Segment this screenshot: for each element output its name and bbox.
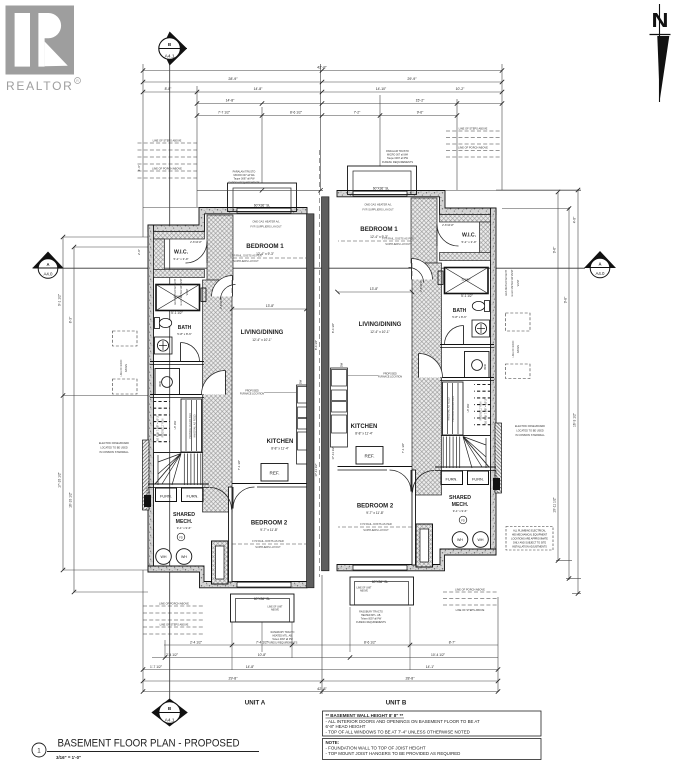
svg-text:VENT: VENT [517,279,520,286]
svg-text:UNIT A: UNIT A [245,700,266,707]
bottom window bay [231,594,295,622]
door: living entry [221,285,236,300]
svg-text:MICRO 007 all WA: MICRO 007 all WA [387,154,408,157]
hatched wall band below W.I.C. [154,270,205,278]
window opening top bay [237,208,291,213]
section marker B/A4.1 bottom [151,699,187,727]
section marker A/A4.0 left [33,252,64,279]
svg-text:7'-2": 7'-2" [354,110,361,114]
svg-text:SHARED: SHARED [173,512,195,518]
svg-text:A4.0: A4.0 [43,272,53,277]
svg-text:7'-1 1/2": 7'-1 1/2" [401,443,405,453]
svg-text:10'-8": 10'-8" [258,653,267,657]
svg-text:LINE OF STEPS ABOVE: LINE OF STEPS ABOVE [160,623,189,627]
svg-text:A4.0: A4.0 [595,271,605,276]
svg-text:DW: DW [299,379,303,384]
svg-text:SUPPLIERS LAYOUT: SUPPLIERS LAYOUT [385,242,411,246]
dashed lines: porch above (bottom right, unit B) [443,591,497,593]
svg-text:HANDRAIL AS REQD: HANDRAIL AS REQD [194,414,197,438]
svg-text:VENT: VENT [186,288,189,295]
svg-text:BEDROOM 1: BEDROOM 1 [360,226,398,233]
svg-text:LINE OF ROOF: LINE OF ROOF [120,359,123,376]
svg-text:PARALAM TRUSTO: PARALAM TRUSTO [386,150,409,153]
svg-text:A4.1: A4.1 [165,718,175,724]
svg-text:LIVING/DINING: LIVING/DINING [241,330,284,336]
door: W.I.C. [186,242,208,264]
svg-text:8'-4 1/2": 8'-4 1/2" [331,323,335,333]
svg-text:5'-1 1/2": 5'-1 1/2" [461,294,473,298]
svg-text:MECH.: MECH. [176,519,193,525]
svg-text:FD: FD [461,518,465,522]
svg-text:17'-11 1/2": 17'-11 1/2" [314,463,318,476]
svg-text:9'-1 1/2": 9'-1 1/2" [58,293,62,306]
svg-text:8'-6 1/2": 8'-6 1/2" [364,641,377,645]
svg-text:Taupe 0097 all PW: Taupe 0097 all PW [234,178,256,181]
svg-text:W.I.C.: W.I.C. [174,250,189,256]
svg-text:FYR SUPPLIERS LAYOUT: FYR SUPPLIERS LAYOUT [250,225,282,229]
svg-text:LINE OF PORCH ABOVE: LINE OF PORCH ABOVE [455,588,485,592]
floor drain [177,533,185,541]
svg-text:8'-8" x 11'-4": 8'-8" x 11'-4" [355,432,373,436]
svg-text:FD: FD [179,535,183,539]
svg-text:28'-9": 28'-9" [228,77,238,81]
svg-text:14'-8": 14'-8" [246,665,255,669]
svg-text:5'-1 1/2": 5'-1 1/2" [171,311,183,315]
svg-text:8'-3": 8'-3" [69,316,73,323]
svg-text:9'-1" x 9'-6": 9'-1" x 9'-6" [453,509,468,513]
svg-text:BATH: BATH [453,308,467,314]
svg-text:12'-4" x 10'-1": 12'-4" x 10'-1" [370,330,390,334]
dashed roof boxes left [113,331,138,346]
svg-text:KITCHEN: KITCHEN [267,439,294,445]
svg-text:GAS METER W/ VENT: GAS METER W/ VENT [174,279,177,305]
party wall unit A side [307,214,315,588]
REALTOR logo block [6,6,75,75]
svg-text:10'-4 1/2": 10'-4 1/2" [431,653,446,657]
svg-text:LINE OF STEPS ABOVE: LINE OF STEPS ABOVE [456,608,485,612]
svg-text:2'-4 1/2": 2'-4 1/2" [166,653,179,657]
svg-text:16 R @ 7 5/8" = 10'-2": 16 R @ 7 5/8" = 10'-2" [156,415,160,441]
svg-text:FYR RAIL JOISTS AS PER: FYR RAIL JOISTS AS PER [382,237,414,241]
svg-text:10'-2": 10'-2" [456,87,465,91]
furnace 1 [156,488,177,502]
top dimension lines [143,70,502,72]
svg-text:28'-8": 28'-8" [406,677,416,681]
svg-text:10'-11 1/2": 10'-11 1/2" [553,496,557,512]
svg-text:5'-8" x 8'-6": 5'-8" x 8'-6" [452,315,467,319]
svg-text:Taupe 0097 all PW: Taupe 0097 all PW [387,157,409,160]
dim connector above unit B wall [197,189,323,191]
svg-text:RISERS 11" RUN: RISERS 11" RUN [480,401,483,420]
svg-text:PROVIDE GUARD AND: PROVIDE GUARD AND [452,396,455,422]
plumbing note dashed box unit B [506,527,553,551]
party wall centreline top [320,64,322,191]
wall plane extension line unit B top [445,190,581,192]
svg-text:1'-7 1/2": 1'-7 1/2" [150,665,163,669]
stairs: winder fan [155,454,181,486]
svg-text:1'-6": 1'-6" [137,165,141,171]
svg-text:17'-11 1/2": 17'-11 1/2" [331,446,335,459]
wall mech/bedroom2 divider [229,487,233,582]
svg-text:ABOVE: ABOVE [517,344,520,353]
hatched wall band left of W.I.C. [154,239,165,270]
svg-text:BASEMENT FLOOR PLAN - PROPOSED: BASEMENT FLOOR PLAN - PROPOSED [58,738,240,750]
svg-text:LOCATED TO BE USED: LOCATED TO BE USED [100,447,128,450]
svg-text:HID MECHANICAL EQUIPMENT: HID MECHANICAL EQUIPMENT [512,534,548,537]
section marker A/A4.0 right [585,251,616,278]
svg-text:16'-3 1/2": 16'-3 1/2" [573,412,577,427]
svg-text:5'-8" x 8'-6": 5'-8" x 8'-6" [177,332,192,336]
svg-text:14'-1": 14'-1" [426,665,435,669]
bottom dimension lines [164,644,498,646]
svg-text:- FOUNDATION WALL TO TOP OF JO: - FOUNDATION WALL TO TOP OF JOIST HEIGHT [326,746,426,751]
svg-text:LIVING/DINING: LIVING/DINING [359,322,402,328]
svg-text:A4.1: A4.1 [165,54,175,60]
svg-text:13'-8": 13'-8" [266,304,275,308]
svg-text:IN COMMON STAIRWELL: IN COMMON STAIRWELL [515,434,545,437]
svg-text:LOCATED TO BE USED: LOCATED TO BE USED [516,430,544,433]
drawing number circle [32,743,46,757]
dashed joist line bedroom2 [232,543,306,545]
dashed joist line bedroom1 [233,257,306,259]
svg-text:14'-8": 14'-8" [254,87,263,91]
svg-text:SUPPLIERS LAYOUT: SUPPLIERS LAYOUT [255,545,281,549]
svg-text:W/D: W/D [483,363,487,370]
water heater 1 [156,549,172,565]
svg-text:- TOP OF ALL WINDOWS TO BE AT: - TOP OF ALL WINDOWS TO BE AT 7'-4" UNLE… [326,730,470,735]
svg-text:LINE OF UNIT: LINE OF UNIT [268,607,284,609]
bath sink [155,337,173,354]
svg-text:FURESU REQUIREMENTS: FURESU REQUIREMENTS [382,161,413,164]
door: bath [181,343,200,362]
svg-text:60"X36" SL: 60"X36" SL [372,580,388,584]
svg-text:ABOVE: ABOVE [125,363,128,372]
door: bedroom 1 [212,276,233,297]
svg-text:9'-6": 9'-6" [553,246,557,253]
party wall centreline bottom [321,575,323,694]
svg-text:14'-8": 14'-8" [226,98,235,102]
window opening bottom bay [237,582,291,587]
svg-text:2'-6"x6'-8": 2'-6"x6'-8" [219,297,223,309]
svg-text:9'-8": 9'-8" [564,296,568,303]
svg-text:16 R @ 7 5/8" = 10'-2": 16 R @ 7 5/8" = 10'-2" [484,398,488,424]
unit B walls and fixtures (mirrored) [331,166,502,605]
left dimension lines [62,237,64,570]
svg-text:LINE OF UNIT: LINE OF UNIT [357,588,373,590]
svg-text:12'-4" x 10'-1": 12'-4" x 10'-1" [252,338,272,342]
svg-text:SHARED: SHARED [449,495,471,501]
stacked washer dryer [155,369,180,395]
hatched chase strip beside bath/stairs [203,280,233,512]
svg-text:FYR RAIL JOISTS AS PER: FYR RAIL JOISTS AS PER [252,539,284,543]
svg-text:ABOVE: ABOVE [271,609,279,612]
svg-text:3/16" = 1'-0": 3/16" = 1'-0" [56,755,81,760]
svg-text:13'-8": 13'-8" [370,287,379,291]
section line B-B vertical [169,63,171,699]
notes box 2 [323,739,542,760]
svg-text:PROVIDE GUARD AND: PROVIDE GUARD AND [189,413,192,439]
svg-text:8'-8": 8'-8" [165,87,173,91]
svg-text:W.I.C.: W.I.C. [462,233,477,239]
door: hall to stairs [202,371,226,395]
furnace 2 [182,488,204,502]
svg-text:8'-6 1/2": 8'-6 1/2" [290,110,303,114]
hatched chase strip right of W.I.C. [207,215,233,280]
svg-text:2'-6"x6'-8": 2'-6"x6'-8" [419,280,423,292]
svg-text:GAS METER W/ VENT: GAS METER W/ VENT [505,270,508,296]
svg-text:4'-0": 4'-0" [573,216,577,223]
door: hall to mech [210,488,232,510]
svg-text:FURESU REQUIREMENTS: FURESU REQUIREMENTS [356,621,386,624]
svg-text:ELEC METER W/ VENT: ELEC METER W/ VENT [511,269,514,297]
notes box 1 [323,711,542,736]
section marker B/A4.1 top [159,32,187,66]
svg-text:ELECTRIC PANELBOARD: ELECTRIC PANELBOARD [515,425,545,428]
wall: unit top/left exterior [148,208,307,232]
door: bedroom 2 [233,487,255,509]
svg-text:FURN.: FURN. [160,494,172,499]
svg-text:ABOVE: ABOVE [360,590,368,593]
svg-text:W/D: W/D [158,380,162,387]
niche beside shower [201,288,206,302]
svg-text:A: A [46,262,49,267]
svg-text:LINE OF STEPS ABOVE: LINE OF STEPS ABOVE [153,139,182,143]
dashed lines: steps above (top left, unit A) [138,142,198,144]
svg-text:BEDROOM 2: BEDROOM 2 [251,521,288,527]
svg-text:N: N [652,10,669,32]
svg-text:2'-6"x6'-8": 2'-6"x6'-8" [190,240,202,244]
water heater 2 [176,549,192,565]
svg-text:A: A [598,262,601,267]
shower 32x60 [156,285,200,311]
interior dimension living [232,308,307,310]
wall bedroom 2 top [232,483,307,485]
svg-text:5'-2" x 3'-9": 5'-2" x 3'-9" [173,257,188,261]
svg-text:14'-10": 14'-10" [376,87,387,91]
svg-text:FYR SUPPLIERS LAYOUT: FYR SUPPLIERS LAYOUT [362,208,394,212]
svg-text:LINE OF ROOF: LINE OF ROOF [512,340,515,357]
unit A walls and fixtures (geometry reused mirrored for unit B) [143,183,314,622]
svg-text:- TOP MOUNT JOIST HANGERS TO B: - TOP MOUNT JOIST HANGERS TO BE PROVIDED… [326,751,461,756]
svg-text:ELECTRIC PANELBOARD: ELECTRIC PANELBOARD [99,442,129,445]
svg-text:KITCHEN: KITCHEN [351,424,378,430]
svg-text:FURN.: FURN. [446,477,458,482]
svg-text:8'-7": 8'-7" [449,641,456,645]
party wall unit B side [322,197,330,571]
egress window well bedroom 2 [212,541,229,584]
svg-text:FYR RAIL JOISTS AS PER: FYR RAIL JOISTS AS PER [230,254,262,258]
svg-text:9'-1" x 9'-6": 9'-1" x 9'-6" [177,526,192,530]
svg-text:IN COMMON STAIRWELL: IN COMMON STAIRWELL [99,451,129,454]
svg-text:** BASEMENT WALL HEIGHT 8' 8": ** BASEMENT WALL HEIGHT 8' 8" ** [326,713,404,718]
svg-text:LINE OF PORCH ABOVE: LINE OF PORCH ABOVE [152,167,182,171]
range [298,432,313,450]
stairs: bottom run treads [184,454,201,486]
svg-text:29'-8": 29'-8" [229,677,239,681]
svg-text:1: 1 [37,747,41,754]
fridge [261,464,288,482]
kitchen sink [298,407,313,418]
dashed beam line living [231,280,233,440]
wall mech room top [148,483,209,485]
svg-text:ONLY AND SUBJECT TO SITE: ONLY AND SUBJECT TO SITE [513,542,547,545]
svg-text:RISERS 11" RUN: RISERS 11" RUN [162,418,165,437]
svg-text:15'-2": 15'-2" [416,98,425,102]
svg-text:BEDROOM 1: BEDROOM 1 [246,243,284,250]
dashed roof boxes right [506,313,531,331]
kitchen counter [297,385,314,464]
svg-text:UP 16R: UP 16R [467,403,470,412]
svg-text:INSTALLATION ADJUSTMENTS: INSTALLATION ADJUSTMENTS [512,546,547,549]
svg-text:ELEC METER W/ VENT: ELEC METER W/ VENT [180,278,183,306]
svg-text:WH: WH [161,555,167,559]
svg-text:8'-4 1/2": 8'-4 1/2" [314,340,318,350]
stairs: stringers of up flight [181,399,202,452]
svg-text:ONE GAS HEATER A/L: ONE GAS HEATER A/L [252,220,280,224]
wall plane extension line unit A top [143,207,199,209]
svg-text:DW: DW [340,362,344,367]
svg-text:SUPPLIERS LAYOUT: SUPPLIERS LAYOUT [233,259,259,263]
diagonal hatched wall at stair [143,440,150,510]
svg-text:BEDROOM 2: BEDROOM 2 [357,504,394,510]
svg-text:42'-8": 42'-8" [317,65,327,69]
svg-text:REF.: REF. [365,454,375,459]
svg-text:FURNACE LOCATION: FURNACE LOCATION [378,376,403,379]
wall above stairs [150,394,204,396]
svg-text:FURNACE LOCATION: FURNACE LOCATION [240,393,265,396]
svg-text:6'-8" HEAD HEIGHT: 6'-8" HEAD HEIGHT [326,724,366,729]
party wall gap dashed centreline [319,150,321,577]
toilet [155,318,160,329]
dishwasher [298,387,313,404]
svg-text:SUPPLIERS LAYOUT: SUPPLIERS LAYOUT [363,528,389,532]
dashed lines: steps above (top right, unit B) [446,130,500,132]
svg-text:2'-6"x6'-8": 2'-6"x6'-8" [442,223,454,227]
svg-text:MICRO 007 all WA: MICRO 007 all WA [233,174,254,177]
svg-text:REF.: REF. [270,471,280,476]
svg-text:FURN.: FURN. [472,477,484,482]
svg-text:LINE OF PORCH ABOVE: LINE OF PORCH ABOVE [159,602,189,606]
svg-text:FURN.: FURN. [187,494,199,499]
svg-text:LINE OF STEPS ABOVE: LINE OF STEPS ABOVE [459,127,488,131]
svg-text:UNIT B: UNIT B [386,700,407,707]
svg-text:FURESU REQUIREMENTS: FURESU REQUIREMENTS [268,642,298,645]
svg-text:WH: WH [181,555,187,559]
svg-text:17'-10 1/2": 17'-10 1/2" [58,471,62,488]
svg-text:42'-8": 42'-8" [317,687,327,691]
hatched wall band above W.I.C. [154,232,205,240]
svg-text:HANDRAIL AS REQD: HANDRAIL AS REQD [448,397,451,421]
svg-text:2'-4 1/2": 2'-4 1/2" [190,641,203,645]
svg-text:9'-6": 9'-6" [417,110,424,114]
svg-text:60"X36" SL: 60"X36" SL [373,187,389,191]
right dimension lines [557,192,559,561]
svg-text:LINE OF PORCH ABOVE: LINE OF PORCH ABOVE [458,146,488,150]
svg-text:REALTOR: REALTOR [6,79,73,93]
svg-text:29'-9": 29'-9" [407,77,417,81]
svg-text:NOTE:: NOTE: [326,740,340,745]
north arrow [659,4,661,102]
FA/CA marker unit B [493,478,500,490]
svg-text:FA.I.CA: FA.I.CA [145,487,149,496]
stairs: dashed upper flight [153,402,170,442]
svg-text:ONE GAS HEATER A/L: ONE GAS HEATER A/L [364,203,392,207]
svg-text:32"X60": 32"X60" [461,278,470,282]
section line A-A horizontal [57,267,585,269]
svg-text:ALL PLUMBING ELECTRICAL: ALL PLUMBING ELECTRICAL [513,530,546,533]
svg-text:2'-0": 2'-0" [137,249,141,255]
svg-text:PARALAM TRUSTO: PARALAM TRUSTO [233,171,256,174]
svg-text:16'-10 1/2": 16'-10 1/2" [69,491,73,508]
FA/CA marker unit A [144,495,151,507]
svg-text:7'-7 1/2": 7'-7 1/2" [218,110,231,114]
svg-text:FYR RAIL JOISTS AS PER: FYR RAIL JOISTS AS PER [360,522,392,526]
svg-text:BATH: BATH [178,325,192,331]
svg-text:FURESU REQUIREMENTS: FURESU REQUIREMENTS [228,181,259,184]
svg-text:5'-2" x 3'-9": 5'-2" x 3'-9" [461,240,476,244]
svg-text:MECH.: MECH. [452,502,469,508]
svg-text:WH: WH [478,538,484,542]
svg-text:UP 16R: UP 16R [174,420,177,429]
svg-text:9'-7" x 11'-8": 9'-7" x 11'-8" [260,528,278,532]
svg-text:60"X36" SL: 60"X36" SL [254,597,270,601]
svg-text:WH: WH [457,538,463,542]
top window bay [228,183,297,212]
wall: unit left exterior [148,225,154,572]
svg-text:7'-1 1/2": 7'-1 1/2" [237,460,241,470]
stairs: landing line [153,452,203,454]
svg-text:9'-7" x 11'-8": 9'-7" x 11'-8" [366,511,384,515]
wall: unit bottom exterior [148,566,307,588]
svg-text:FA.I.CA: FA.I.CA [494,470,498,479]
svg-text:LOCATIONS ARE APPROXIMATE: LOCATIONS ARE APPROXIMATE [511,538,548,541]
dashed lines: porch above (bottom left, unit A) [143,605,205,607]
svg-text:60"X36" SL: 60"X36" SL [254,204,270,208]
svg-text:8'-8" x 11'-4": 8'-8" x 11'-4" [271,447,289,451]
wall below bath [150,361,204,363]
